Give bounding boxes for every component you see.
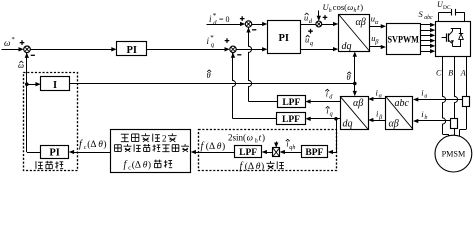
wire phase B lower — [454, 129, 456, 137]
svg-text:): ) — [103, 139, 106, 150]
block PI2 current controller — [268, 21, 301, 54]
wire PI1 to iq summing junction — [147, 49, 226, 51]
svg-text:): ) — [148, 160, 151, 171]
svg-text:b: b — [424, 115, 427, 121]
wire iq-hat tap down to BPF — [336, 119, 338, 152]
motor PMSM — [435, 135, 472, 172]
svg-text:(Δ: (Δ — [132, 160, 141, 171]
wire id* input — [207, 24, 242, 26]
wire id-hat feedback to id junction — [249, 101, 278, 103]
wire 2sin carrier into multiplier — [276, 142, 278, 145]
block LPF1 — [278, 96, 306, 108]
svg-text:q: q — [330, 111, 333, 118]
block SVPWM — [387, 24, 421, 55]
svg-text:abc: abc — [424, 15, 433, 21]
svg-text:PI: PI — [278, 33, 289, 44]
summing junction iq error — [230, 46, 236, 52]
svg-text:A: A — [460, 69, 466, 78]
svg-text:dq: dq — [342, 41, 352, 52]
svg-text:cos(: cos( — [333, 2, 347, 12]
svg-text:SVPWM: SVPWM — [387, 35, 419, 46]
svg-text:ω: ω — [347, 2, 353, 12]
wire omega-hat branch into integrator — [27, 84, 37, 86]
block inverter — [436, 22, 471, 57]
svg-text:α: α — [375, 19, 379, 26]
wire id error to PI2 — [252, 24, 264, 26]
svg-text:h: h — [255, 138, 258, 144]
wire i-beta — [372, 120, 386, 122]
block PI1 speed controller — [117, 42, 147, 56]
wire phase C — [443, 57, 446, 135]
wire theta-hat horizontal from I block — [70, 83, 355, 85]
node junction theta-hat branch — [353, 82, 357, 86]
svg-text:PI: PI — [126, 45, 137, 56]
sensor current transducer phase A — [463, 97, 470, 107]
svg-text:BPF: BPF — [305, 148, 323, 158]
svg-text:ω: ω — [247, 132, 253, 142]
wire multiplier to LPF3 — [265, 152, 273, 154]
transistor IGBT with freewheel diode inside inverter — [451, 28, 461, 30]
svg-text:θ: θ — [207, 70, 211, 80]
svg-text:I: I — [53, 80, 57, 91]
wire omega* input — [2, 49, 21, 51]
wire PLL PI output up to speed junction — [27, 152, 41, 154]
svg-text:LPF: LPF — [239, 148, 257, 158]
block alpha-beta to dq current transform — [341, 97, 369, 130]
module f(dtheta) extraction dashed box — [199, 130, 337, 171]
svg-text:qh: qh — [289, 144, 295, 151]
svg-text:ω: ω — [4, 38, 10, 48]
svg-text:C: C — [436, 69, 442, 78]
svg-text:θ: θ — [347, 72, 351, 82]
wire BPF to multiplier — [283, 152, 301, 154]
svg-text:(Δ: (Δ — [87, 139, 96, 150]
wire f(dtheta) to harmonic elimination module — [194, 152, 235, 154]
svg-text:PMSM: PMSM — [442, 150, 466, 159]
wire PI2 q-output to dq-ab block — [300, 49, 334, 51]
svg-text:β: β — [374, 39, 379, 46]
block dq to alpha-beta voltage transform — [339, 15, 370, 52]
svg-text:a: a — [424, 93, 427, 99]
wire iq error to PI2 — [236, 49, 263, 51]
block estimated position 2nd harmonic error elimination module — [111, 130, 191, 173]
svg-text:): ) — [360, 2, 363, 12]
wire phase A upper — [466, 57, 468, 97]
summing junction speed error — [24, 46, 31, 53]
wire iq-hat feedback to iq junction — [233, 118, 277, 120]
summing junction HF injection — [316, 21, 322, 27]
multiplier demodulator — [273, 148, 280, 157]
sensor current transducer phase B — [451, 119, 458, 129]
svg-text:2sin(: 2sin( — [228, 132, 246, 142]
svg-text:PI: PI — [49, 148, 60, 159]
svg-text:αβ: αβ — [356, 17, 366, 28]
wire injection vertical — [318, 11, 320, 18]
svg-text:): ) — [261, 161, 264, 172]
wire UDC bus and capacitor — [438, 12, 440, 21]
block BPF — [302, 146, 328, 158]
svg-text:2: 2 — [162, 133, 167, 143]
wire phase B upper — [455, 57, 458, 119]
wire ib to abc block — [417, 120, 451, 122]
wires SVPWM gate signals to inverter — [420, 24, 431, 26]
wire dq block d-output to LPF1 — [309, 101, 340, 103]
svg-text:h: h — [354, 8, 357, 14]
wire speed error to PI1 — [30, 49, 112, 51]
block PI PLL controller — [41, 146, 69, 159]
svg-text:αβ: αβ — [353, 98, 363, 109]
svg-text:): ) — [222, 141, 225, 152]
wire i-alpha — [372, 98, 386, 100]
wire theta-hat up to voltage transform — [354, 55, 356, 84]
summing junction id error — [245, 21, 251, 27]
svg-text:*: * — [12, 36, 15, 43]
node junction omega-hat branch to I block — [25, 82, 29, 86]
wire phase A lower — [466, 106, 468, 130]
module caption PLL — [36, 161, 43, 169]
wire injection junction to dq-ab block — [322, 24, 334, 26]
wire ia to abc block — [417, 99, 463, 101]
wire PI2 d-output to injection junction — [300, 24, 316, 26]
svg-text:B: B — [448, 69, 453, 78]
wire fc(dtheta) to PLL PI — [72, 152, 110, 154]
block integrator I — [41, 77, 70, 91]
svg-text:(Δ: (Δ — [245, 161, 254, 172]
svg-text:LPF: LPF — [282, 98, 300, 108]
block LPF3 — [235, 146, 262, 158]
svg-text:= 0: = 0 — [219, 15, 230, 24]
svg-text:DC: DC — [443, 5, 451, 11]
svg-text:abc: abc — [395, 98, 410, 109]
svg-text:h: h — [329, 8, 332, 14]
svg-text:dq: dq — [343, 119, 353, 130]
wire theta-hat down to current transform — [354, 84, 356, 94]
node junction iq-hat tap for BPF — [334, 117, 338, 121]
wire dq block q-output to LPF2 — [309, 118, 340, 120]
svg-text:): ) — [262, 132, 265, 142]
module PLL dashed box — [24, 73, 78, 171]
svg-text:αβ: αβ — [389, 119, 399, 130]
block abc to alpha-beta current transform — [386, 97, 413, 130]
svg-text:(Δ: (Δ — [206, 141, 215, 152]
block LPF2 — [277, 113, 306, 125]
svg-text:LPF: LPF — [282, 115, 300, 125]
